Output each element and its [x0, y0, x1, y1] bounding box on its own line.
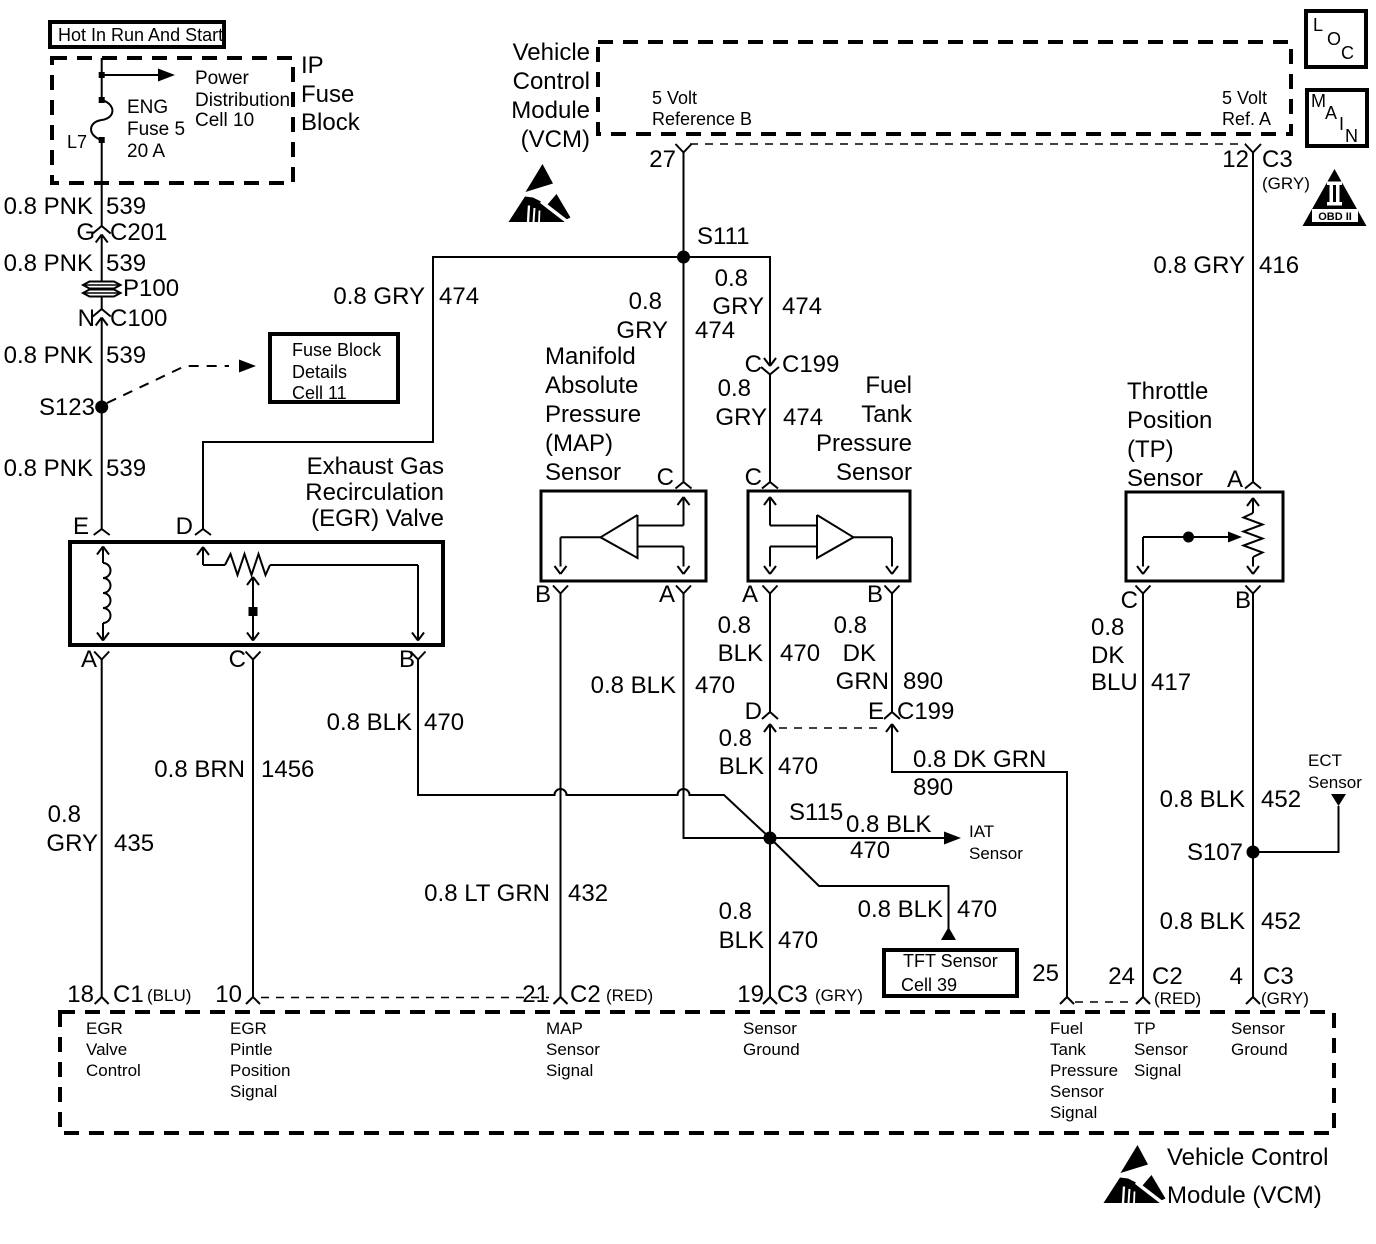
svg-text:BLU: BLU	[1091, 669, 1138, 696]
svg-text:N: N	[1345, 126, 1358, 146]
svg-text:Fuse 5: Fuse 5	[127, 119, 185, 140]
svg-text:Signal: Signal	[546, 1061, 593, 1080]
svg-text:Pressure: Pressure	[545, 401, 641, 428]
svg-text:452: 452	[1261, 908, 1301, 935]
connector C199 pin D	[762, 712, 770, 719]
wire: 0.8 BLK 452 S107 to pin 4	[1252, 852, 1254, 997]
TP sensor box	[1126, 492, 1283, 581]
svg-text:0.8 GRY: 0.8 GRY	[333, 283, 425, 310]
svg-text:Pintle: Pintle	[230, 1040, 273, 1059]
svg-text:(MAP): (MAP)	[545, 430, 613, 457]
wire: 0.8 LT GRN 432 MAP B to pin 21	[560, 594, 562, 998]
ESD symbol (bottom)	[1104, 1145, 1166, 1205]
splice S111	[677, 251, 690, 264]
svg-text:Signal: Signal	[230, 1082, 277, 1101]
pin 12 C3	[1245, 144, 1253, 153]
wire: 0.8 GRY 474 pin27 to S111 to MAP C	[683, 153, 685, 483]
svg-text:S111: S111	[697, 223, 750, 250]
svg-text:470: 470	[780, 640, 820, 667]
svg-text:Position: Position	[230, 1061, 290, 1080]
wire arrow: 0.8 BLK 470 to IAT sensor	[770, 837, 944, 839]
svg-text:I: I	[1339, 114, 1344, 134]
TP terminal C	[1136, 586, 1144, 594]
svg-text:0.8 BLK: 0.8 BLK	[591, 672, 676, 699]
svg-text:Manifold: Manifold	[545, 343, 636, 370]
splice S123	[95, 401, 108, 414]
svg-text:Ref. A: Ref. A	[1222, 109, 1271, 129]
splice S107	[1247, 846, 1260, 859]
svg-text:S123: S123	[39, 394, 95, 421]
svg-text:Ground: Ground	[743, 1040, 800, 1059]
OBD II symbol	[1303, 169, 1367, 226]
wire: 0.8 BLK 470 C199 D to S115	[769, 724, 771, 838]
pins 25-24 connector face dashed line	[1075, 1001, 1134, 1003]
FTP terminal B	[885, 586, 893, 594]
svg-text:Cell 10: Cell 10	[195, 110, 254, 131]
svg-text:Cell 39: Cell 39	[901, 975, 957, 995]
svg-text:470: 470	[695, 672, 735, 699]
svg-text:MAP: MAP	[546, 1019, 583, 1038]
svg-text:Pressure: Pressure	[816, 430, 912, 457]
svg-text:(GRY): (GRY)	[1262, 174, 1310, 193]
svg-text:470: 470	[424, 709, 464, 736]
svg-text:Module: Module	[511, 97, 590, 124]
wire: 0.8 GRY 474 C199 to FTP C	[769, 375, 771, 483]
svg-text:27: 27	[649, 146, 676, 173]
svg-text:C: C	[1121, 587, 1138, 614]
svg-text:Throttle: Throttle	[1127, 378, 1208, 405]
svg-text:0.8: 0.8	[1091, 614, 1124, 641]
svg-text:474: 474	[782, 293, 822, 320]
svg-text:539: 539	[106, 250, 146, 277]
svg-text:Sensor: Sensor	[545, 459, 621, 486]
wire: 0.8 PNK 539 C201 to P100	[101, 235, 103, 283]
svg-text:Block: Block	[301, 109, 361, 136]
svg-text:416: 416	[1259, 252, 1299, 279]
FTP terminal C	[762, 482, 770, 489]
svg-text:ECT: ECT	[1308, 751, 1342, 770]
svg-text:G: G	[76, 219, 95, 246]
svg-text:Sensor: Sensor	[1050, 1082, 1104, 1101]
svg-text:435: 435	[114, 830, 154, 857]
svg-text:Tank: Tank	[861, 401, 913, 428]
svg-text:5 Volt: 5 Volt	[1222, 88, 1267, 108]
arrow to Power Distribution Cell 10	[102, 74, 159, 76]
svg-text:B: B	[1235, 587, 1251, 614]
svg-text:Exhaust Gas: Exhaust Gas	[307, 453, 444, 480]
LOC box	[1306, 11, 1366, 67]
wire: 0.8 GRY 435 EGR A to pin 18	[101, 660, 103, 998]
svg-text:19: 19	[737, 981, 764, 1008]
FTP sensor box	[748, 491, 910, 581]
wire: 0.8 DK GRN 890 C199 E to pin 25	[892, 724, 1067, 997]
svg-text:(GRY): (GRY)	[1261, 989, 1309, 1008]
wire: 0.8 BLK 470 S115 to pin 19	[769, 838, 771, 997]
pin 19 C3	[763, 997, 770, 1004]
svg-text:0.8: 0.8	[718, 612, 751, 639]
connector C199 pin E	[884, 712, 892, 719]
pin 24 C2	[1136, 997, 1143, 1004]
MAP terminal C	[676, 482, 684, 489]
junction at fuse feed	[99, 72, 105, 78]
svg-text:Sensor: Sensor	[1308, 773, 1362, 792]
svg-text:S115: S115	[789, 799, 843, 826]
svg-text:Sensor: Sensor	[546, 1040, 600, 1059]
label box: TFT Sensor Cell 39	[884, 950, 1017, 996]
svg-text:N: N	[78, 305, 95, 332]
svg-text:Vehicle Control: Vehicle Control	[1167, 1144, 1328, 1171]
svg-text:470: 470	[957, 896, 997, 923]
svg-text:Signal: Signal	[1134, 1061, 1181, 1080]
svg-text:TFT Sensor: TFT Sensor	[903, 951, 998, 971]
svg-text:24: 24	[1108, 963, 1135, 990]
svg-text:ENG: ENG	[127, 97, 168, 118]
svg-text:18: 18	[67, 981, 94, 1008]
wire: P100 to C100	[101, 297, 103, 309]
svg-text:4: 4	[1230, 963, 1243, 990]
EGR pintle wiper	[247, 577, 253, 585]
svg-text:Ground: Ground	[1231, 1040, 1288, 1059]
svg-text:0.8 LT GRN: 0.8 LT GRN	[424, 880, 550, 907]
svg-text:A: A	[1227, 466, 1243, 493]
svg-text:EGR: EGR	[86, 1019, 123, 1038]
wire: 0.8 PNK 539 C100 to S123	[101, 318, 103, 408]
svg-text:GRN: GRN	[836, 668, 889, 695]
svg-text:0.8 BLK: 0.8 BLK	[1160, 908, 1245, 935]
svg-text:A: A	[81, 646, 97, 673]
svg-text:0.8 GRY: 0.8 GRY	[1153, 252, 1245, 279]
MAP terminal A	[676, 586, 684, 594]
svg-text:OBD II: OBD II	[1318, 211, 1352, 223]
svg-text:B: B	[399, 646, 415, 673]
svg-text:(VCM): (VCM)	[521, 126, 590, 153]
svg-text:GRY: GRY	[46, 830, 98, 857]
svg-text:Details: Details	[292, 362, 347, 382]
svg-text:L7: L7	[67, 132, 87, 152]
svg-text:(GRY): (GRY)	[815, 986, 863, 1005]
svg-text:417: 417	[1151, 669, 1191, 696]
FTP internal amplifier	[764, 497, 770, 505]
pin 10	[246, 997, 253, 1004]
svg-text:D: D	[745, 698, 762, 725]
svg-text:A: A	[659, 581, 675, 608]
svg-text:470: 470	[850, 837, 890, 864]
pin 21 C2	[554, 997, 561, 1004]
svg-text:Control: Control	[513, 68, 590, 95]
pin 25	[1060, 997, 1067, 1004]
svg-text:Distribution: Distribution	[195, 90, 290, 111]
svg-text:(BLU): (BLU)	[147, 986, 191, 1005]
svg-text:L: L	[1313, 15, 1323, 35]
svg-text:E: E	[73, 513, 89, 540]
svg-text:C: C	[745, 464, 762, 491]
svg-text:Control: Control	[86, 1061, 141, 1080]
svg-text:(EGR) Valve: (EGR) Valve	[311, 505, 444, 532]
EGR valve box	[70, 542, 443, 645]
wire: 0.8 BLK 470 FTP A to C199 D	[769, 594, 771, 713]
svg-text:C201: C201	[110, 219, 167, 246]
svg-text:0.8 BLK: 0.8 BLK	[1160, 786, 1245, 813]
svg-text:(RED): (RED)	[606, 986, 653, 1005]
svg-text:Fuse: Fuse	[301, 81, 354, 108]
EGR terminal B	[411, 652, 419, 660]
svg-text:DK: DK	[843, 640, 876, 667]
svg-text:B: B	[867, 581, 883, 608]
MAP sensor box	[541, 491, 706, 581]
svg-text:0.8 BRN: 0.8 BRN	[154, 756, 245, 783]
svg-text:Sensor: Sensor	[743, 1019, 797, 1038]
svg-text:GRY: GRY	[616, 317, 668, 344]
svg-text:C: C	[657, 464, 674, 491]
TP internal potentiometer	[1247, 498, 1253, 506]
MAP terminal B	[553, 586, 561, 594]
svg-text:M: M	[1311, 91, 1326, 111]
svg-text:C: C	[1341, 43, 1354, 63]
svg-text:C3: C3	[777, 981, 808, 1008]
svg-text:(RED): (RED)	[1154, 989, 1201, 1008]
splice S115	[764, 832, 777, 845]
svg-text:C2: C2	[570, 981, 601, 1008]
ESD symbol (top)	[509, 164, 571, 224]
svg-text:Fuse Block: Fuse Block	[292, 340, 382, 360]
svg-text:A: A	[1325, 103, 1337, 123]
svg-text:Fuel: Fuel	[1050, 1019, 1083, 1038]
svg-text:C2: C2	[1152, 963, 1183, 990]
wire: 0.8 BLK 470 EGR B to S115	[418, 660, 770, 839]
svg-text:D: D	[176, 513, 193, 540]
TP wiper arm	[1143, 536, 1228, 538]
TP terminal B	[1246, 586, 1254, 594]
EGR terminal C	[246, 652, 254, 660]
wire arrow to ECT sensor	[1253, 806, 1339, 852]
label box: Hot In Run And Start	[50, 22, 224, 47]
label box: Fuse Block Details Cell 11	[270, 334, 398, 402]
svg-text:0.8 BLK: 0.8 BLK	[858, 896, 943, 923]
svg-text:Sensor: Sensor	[969, 844, 1023, 863]
pin 18 C1	[95, 997, 102, 1004]
svg-text:0.8 PNK: 0.8 PNK	[4, 193, 93, 220]
svg-text:BLK: BLK	[719, 927, 764, 954]
svg-text:Power: Power	[195, 68, 250, 89]
svg-text:470: 470	[778, 927, 818, 954]
EGR solenoid coil	[97, 547, 103, 555]
svg-text:0.8 PNK: 0.8 PNK	[4, 250, 93, 277]
svg-text:25: 25	[1032, 960, 1059, 987]
C199 connector face dashed line	[779, 727, 882, 729]
svg-text:890: 890	[913, 774, 953, 801]
svg-text:Sensor: Sensor	[836, 459, 912, 486]
FTP terminal A	[763, 586, 771, 594]
EGR terminal A	[94, 652, 102, 660]
Vehicle Control Module dashed box (bottom)	[60, 1012, 1334, 1133]
svg-text:474: 474	[783, 404, 823, 431]
svg-text:Sensor: Sensor	[1231, 1019, 1285, 1038]
EGR terminal E	[94, 529, 102, 535]
svg-text:C1: C1	[113, 981, 144, 1008]
svg-text:Module (VCM): Module (VCM)	[1167, 1182, 1322, 1209]
svg-text:Cell 11: Cell 11	[292, 383, 347, 403]
wire: 0.8 DK GRN 890 FTP B to C199 E	[891, 594, 893, 713]
svg-text:12: 12	[1222, 146, 1249, 173]
svg-text:S107: S107	[1187, 839, 1243, 866]
grommet P100	[83, 282, 121, 289]
fuse ENG Fuse 5 20A	[99, 97, 105, 103]
svg-text:Tank: Tank	[1050, 1040, 1086, 1059]
svg-text:432: 432	[568, 880, 608, 907]
MAIN box	[1307, 90, 1367, 146]
svg-text:474: 474	[695, 317, 735, 344]
svg-text:Signal: Signal	[1050, 1103, 1097, 1122]
svg-text:0.8: 0.8	[719, 725, 752, 752]
svg-text:5 Volt: 5 Volt	[652, 88, 697, 108]
pin 27	[676, 144, 684, 153]
svg-text:EGR: EGR	[230, 1019, 267, 1038]
svg-text:C: C	[229, 646, 246, 673]
svg-text:Sensor: Sensor	[1127, 465, 1203, 492]
wire: 0.8 PNK 539 S123 to EGR E	[101, 407, 103, 529]
svg-text:10: 10	[215, 981, 242, 1008]
connector C201 pin G	[93, 226, 102, 234]
VCM connector face dashed line	[690, 143, 1246, 145]
svg-text:0.8 PNK: 0.8 PNK	[4, 455, 93, 482]
svg-text:DK: DK	[1091, 642, 1124, 669]
svg-text:Fuel: Fuel	[865, 372, 912, 399]
EGR pintle resistor	[197, 547, 203, 555]
IP Fuse Block dashed box	[52, 58, 293, 183]
wire arrow: 0.8 BLK 470 to TFT sensor	[770, 838, 949, 929]
connector C199 pin C	[764, 358, 770, 366]
svg-text:O: O	[1327, 29, 1341, 49]
wire: 0.8 BRN 1456 EGR C to pin 10	[252, 660, 254, 998]
svg-text:Position: Position	[1127, 407, 1212, 434]
svg-text:0.8 DK GRN: 0.8 DK GRN	[913, 746, 1046, 773]
svg-text:21: 21	[522, 981, 549, 1008]
EGR terminal D	[195, 529, 203, 535]
svg-text:539: 539	[106, 342, 146, 369]
svg-text:IAT: IAT	[969, 822, 994, 841]
wire: 0.8 BLK 470 MAP A to S115	[684, 594, 771, 839]
svg-text:0.8 BLK: 0.8 BLK	[327, 709, 412, 736]
svg-text:Pressure: Pressure	[1050, 1061, 1118, 1080]
MAP internal amplifier	[678, 497, 684, 505]
svg-text:BLK: BLK	[718, 640, 763, 667]
dashed leader to Fuse Block Details	[107, 366, 229, 403]
svg-text:C199: C199	[897, 698, 954, 725]
wire: 0.8 DK BLU 417 TP C to pin 24	[1142, 594, 1144, 998]
svg-text:452: 452	[1261, 786, 1301, 813]
svg-text:B: B	[535, 581, 551, 608]
svg-text:C3: C3	[1262, 146, 1293, 173]
svg-text:0.8: 0.8	[48, 801, 81, 828]
svg-text:0.8: 0.8	[834, 612, 867, 639]
TP terminal A	[1245, 482, 1253, 489]
pin 4 C3	[1246, 997, 1253, 1004]
svg-text:GRY: GRY	[712, 293, 764, 320]
svg-text:BLK: BLK	[719, 753, 764, 780]
svg-text:0.8: 0.8	[715, 265, 748, 292]
svg-text:C199: C199	[782, 351, 839, 378]
wire: feed into fuse	[101, 58, 103, 100]
svg-text:IP: IP	[301, 52, 324, 79]
svg-text:474: 474	[439, 283, 479, 310]
bottom connector face dashed line (C2 red)	[261, 997, 549, 999]
svg-text:E: E	[868, 698, 884, 725]
Vehicle Control Module dashed box (top)	[598, 42, 1291, 134]
wire: S111 right branch to C199 C	[684, 257, 771, 366]
svg-text:Reference B: Reference B	[652, 109, 752, 129]
svg-text:470: 470	[778, 753, 818, 780]
wire: S111 left branch to EGR D	[203, 257, 684, 529]
svg-text:0.8: 0.8	[719, 898, 752, 925]
svg-text:TP: TP	[1134, 1019, 1156, 1038]
wire: 0.8 PNK 539 fuse to C201	[101, 140, 103, 226]
svg-text:P100: P100	[123, 275, 179, 302]
svg-text:539: 539	[106, 193, 146, 220]
wire: 0.8 GRY 416 pin 12 to TP A	[1252, 153, 1254, 483]
svg-text:Vehicle: Vehicle	[513, 39, 590, 66]
svg-text:20 A: 20 A	[127, 141, 165, 162]
svg-text:C100: C100	[110, 305, 167, 332]
svg-text:1456: 1456	[261, 756, 314, 783]
wire: 0.8 BLK 452 TP B to S107	[1252, 594, 1254, 853]
svg-text:Absolute: Absolute	[545, 372, 638, 399]
svg-text:0.8: 0.8	[629, 288, 662, 315]
svg-text:Sensor: Sensor	[1134, 1040, 1188, 1059]
svg-text:(TP): (TP)	[1127, 436, 1174, 463]
svg-text:Valve: Valve	[86, 1040, 127, 1059]
svg-text:0.8 BLK: 0.8 BLK	[846, 811, 931, 838]
svg-text:890: 890	[903, 668, 943, 695]
svg-text:C: C	[745, 351, 762, 378]
svg-text:Hot In Run And Start: Hot In Run And Start	[58, 25, 223, 45]
svg-text:Recirculation: Recirculation	[305, 479, 444, 506]
svg-text:539: 539	[106, 455, 146, 482]
svg-text:C3: C3	[1263, 963, 1294, 990]
svg-text:0.8 PNK: 0.8 PNK	[4, 342, 93, 369]
connector C100 pin N	[93, 309, 102, 317]
svg-text:0.8: 0.8	[718, 375, 751, 402]
svg-text:GRY: GRY	[715, 404, 767, 431]
svg-text:A: A	[742, 581, 758, 608]
